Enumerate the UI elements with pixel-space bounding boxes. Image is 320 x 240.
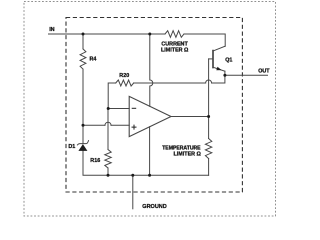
wire R16 top lead [107,109,109,150]
wire op-amp V+ supply lead [150,34,153,106]
transistor Q1 emitter lead [213,67,225,71]
zener D1 anode lead to ground rail [83,151,209,176]
wire ground lead [132,175,134,209]
wire base lead down to op-amp output [208,59,210,117]
junction node inverting input [107,107,110,110]
svg-text:OUT: OUT [258,69,270,75]
junction node ground tap [131,174,134,177]
junction node supply tap [148,33,151,36]
wire emitter to feedback rail [212,71,225,83]
transistor Q1 base stub [209,58,213,60]
wire OUT [225,74,268,76]
wire R16 bottom lead [107,168,109,175]
regulator IC dashed boundary box [66,18,242,193]
junction node R4 tap [82,33,85,36]
svg-text:IN: IN [49,27,54,33]
resistor temperature limiter [205,139,211,159]
transistor Q1 base bar [212,51,214,68]
svg-text:LIMITER Ω: LIMITER Ω [174,151,202,157]
junction node plus input tap [82,124,85,127]
svg-text:R4: R4 [90,56,97,62]
svg-text:LIMITER Ω: LIMITER Ω [161,47,189,53]
wire non-inverting input from node [83,124,105,126]
resistor R20 [116,80,134,86]
resistor R4 [80,49,86,69]
op-amp plus sign [132,125,137,130]
op-amp U1 triangle [129,96,171,136]
wire IN rail [49,33,166,35]
junction node V- tap [148,174,151,177]
junction node R16 bottom [107,174,110,177]
op-amp minus sign [132,107,137,109]
junction node op-amp output [207,115,210,118]
wire hop over R16 lead [105,122,111,125]
wire to plus input [111,124,129,126]
transistor Q1 emitter arrowhead [216,67,221,71]
svg-text:R20: R20 [119,73,129,79]
wire feedback rail [134,82,206,84]
wire op-amp output [171,116,209,118]
svg-text:Q1: Q1 [225,57,232,63]
zener D1 triangle [78,144,87,151]
svg-text:D1: D1 [68,144,75,150]
wire op-amp V- supply lead [149,127,151,176]
zener D1 cathode bar [77,141,88,145]
wire inverting input [108,108,129,110]
wire hop over base lead [206,80,212,83]
resistor current limiter [165,31,184,38]
wire temperature limiter bottom lead [208,159,210,176]
svg-text:R16: R16 [90,158,100,164]
wire temperature limiter top lead [208,117,210,139]
wire R4 to zener D1 [82,69,84,144]
wire R4 top lead [82,34,84,49]
transistor Q1 collector lead [213,46,225,51]
wire R20 left lead down to inverting node [108,83,116,109]
svg-text:GROUND: GROUND [142,204,166,210]
junction node emitter-OUT [223,74,226,77]
resistor R16 [105,150,111,169]
wire rail to Q1 collector [184,34,225,46]
